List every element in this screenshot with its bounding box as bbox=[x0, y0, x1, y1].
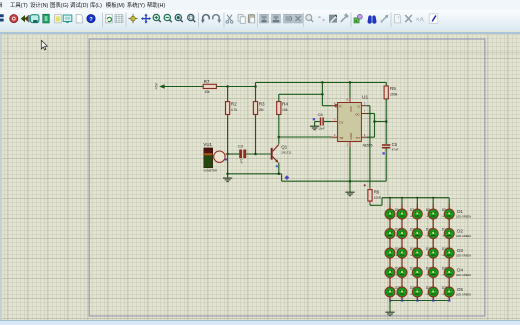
op-amp U1 NE555 bbox=[338, 94, 373, 147]
wire R4 to reset line bbox=[279, 94, 323, 101]
marker emitter bbox=[276, 165, 278, 167]
svg-text:10k: 10k bbox=[282, 108, 288, 112]
svg-text:D5: D5 bbox=[457, 287, 463, 292]
junction bottom rail bbox=[432, 300, 434, 302]
junction VCC drop bbox=[349, 81, 352, 84]
label led D14 bbox=[395, 247, 408, 257]
svg-text:辑: 辑 bbox=[0, 1, 3, 9]
wire col2 link3 bbox=[401, 258, 403, 268]
LED col2 row3 bbox=[397, 247, 407, 260]
wire output pin3 to R6 bbox=[366, 106, 370, 188]
wire ground rail bbox=[228, 174, 387, 181]
junction bottom rail bbox=[401, 300, 403, 302]
svg-text:4.7k: 4.7k bbox=[231, 108, 238, 112]
wire node to R3 bbox=[255, 87, 257, 102]
wire col4 to bottom rail bbox=[432, 297, 434, 301]
LED col4 row2 bbox=[428, 227, 438, 240]
capacitor C6 bbox=[318, 112, 325, 131]
junction collector-trigger bbox=[278, 136, 281, 139]
wire top rail bbox=[256, 82, 387, 86]
wire R6 to LED rail bbox=[370, 198, 449, 206]
svg-text:R7: R7 bbox=[204, 79, 210, 84]
junction rail bbox=[401, 197, 403, 199]
svg-text:C3: C3 bbox=[238, 144, 244, 149]
probe marker bbox=[416, 300, 418, 302]
label row D4 bbox=[456, 268, 471, 277]
wire col5 link4 bbox=[448, 277, 450, 287]
svg-text:D3: D3 bbox=[457, 248, 463, 253]
svg-text:?: ? bbox=[89, 17, 93, 23]
wire R2 to mic node bbox=[227, 115, 229, 155]
svg-text:库(L): 库(L) bbox=[90, 1, 102, 9]
toolbar icons bbox=[0, 13, 438, 28]
svg-text:LED-GREEN: LED-GREEN bbox=[456, 214, 471, 218]
ground C6 bbox=[310, 126, 319, 130]
label led D24 bbox=[426, 286, 439, 296]
LED col3 row3 bbox=[412, 247, 422, 260]
wire 555 GND pin to ground bbox=[349, 147, 351, 192]
LED col1 row3 bbox=[385, 247, 395, 260]
wire col3 link4 bbox=[416, 277, 418, 287]
label led D23 bbox=[410, 286, 423, 296]
LED col4 row3 bbox=[428, 247, 438, 260]
label led D19 bbox=[410, 267, 423, 277]
svg-text:R2: R2 bbox=[231, 101, 237, 106]
wire col4 link2 bbox=[432, 238, 434, 248]
svg-text:100R: 100R bbox=[374, 196, 382, 200]
LED col4 row1 bbox=[428, 208, 438, 221]
LED col5 row1 bbox=[444, 208, 454, 221]
svg-text:1: 1 bbox=[346, 143, 348, 147]
ground mic bbox=[223, 178, 232, 182]
svg-text:2: 2 bbox=[334, 133, 336, 137]
LED col1 row2 bbox=[385, 227, 395, 240]
svg-text:LED-GREEN: LED-GREEN bbox=[456, 273, 471, 277]
label led D6 bbox=[395, 208, 408, 218]
wire col3 link2 bbox=[416, 238, 418, 248]
wire R5 to C5 bbox=[385, 99, 387, 144]
wire bracket to R5C5 node bbox=[375, 121, 387, 123]
svg-text:LED-GREEN: LED-GREEN bbox=[456, 253, 471, 257]
LED col4 row5 bbox=[428, 286, 438, 299]
LED col3 row4 bbox=[412, 266, 422, 279]
junction R3 tap bbox=[254, 85, 257, 88]
LED col3 row5 bbox=[412, 286, 422, 299]
wire C6 to ground bbox=[314, 122, 316, 127]
svg-text:5: 5 bbox=[334, 117, 336, 121]
wire rail drop col2 bbox=[401, 198, 403, 205]
label led D7 bbox=[410, 208, 423, 218]
svg-text:TH: TH bbox=[356, 136, 360, 140]
svg-text:47uF: 47uF bbox=[392, 148, 399, 152]
junction 555 ground bbox=[349, 180, 352, 183]
wire rail corner to R5 bbox=[385, 82, 387, 86]
junction rail bbox=[389, 197, 391, 199]
wire col3 to bottom rail bbox=[416, 297, 418, 301]
svg-text:图表(G): 图表(G) bbox=[50, 1, 69, 9]
wire col2 link2 bbox=[401, 238, 403, 248]
svg-text:7: 7 bbox=[364, 109, 366, 113]
reset pin bubble U1 bbox=[335, 104, 338, 107]
pin numbers U1 bbox=[334, 98, 366, 147]
wire collector to trigger pin bbox=[279, 136, 332, 138]
power terminal +5V bbox=[154, 83, 164, 90]
svg-text:6: 6 bbox=[364, 133, 366, 137]
pin stubs U1 bbox=[332, 98, 367, 147]
label led D9 bbox=[442, 208, 455, 218]
wire col5 link1 bbox=[448, 219, 450, 229]
svg-text:模板(M): 模板(M) bbox=[106, 1, 125, 9]
svg-text:LED-GREEN: LED-GREEN bbox=[456, 292, 471, 296]
wire col2 link4 bbox=[401, 277, 403, 287]
svg-text:调试(D): 调试(D) bbox=[70, 1, 88, 9]
marker C6 bbox=[313, 118, 315, 120]
svg-text:C6: C6 bbox=[318, 112, 324, 117]
LED col2 row2 bbox=[397, 227, 407, 240]
wire Q1 emitter down bbox=[278, 163, 280, 174]
svg-text:工具(T): 工具(T) bbox=[10, 2, 28, 9]
svg-text:3: 3 bbox=[364, 102, 366, 106]
wire rail drop col1 bbox=[389, 198, 391, 205]
svg-text:VUMETER: VUMETER bbox=[203, 168, 217, 172]
wire R3 to base node bbox=[255, 115, 257, 155]
svg-text:系统(Y): 系统(Y) bbox=[127, 1, 145, 9]
resistor R7 bbox=[203, 79, 216, 94]
wire col2 link1 bbox=[401, 219, 403, 229]
wire node to R2 bbox=[227, 87, 229, 102]
label led D17 bbox=[442, 247, 455, 257]
svg-text:GND: GND bbox=[349, 132, 353, 140]
LED col5 row4 bbox=[444, 266, 454, 279]
wire C3 to Q1 base bbox=[246, 153, 271, 155]
junction rail bbox=[416, 197, 418, 199]
capacitor C5 bbox=[382, 142, 399, 151]
polarity marker C5 bbox=[382, 152, 384, 154]
label led D20 bbox=[426, 267, 439, 277]
wire col5 to bottom rail bbox=[448, 297, 450, 301]
junction mic node bbox=[226, 153, 229, 156]
svg-text:a: a bbox=[355, 19, 357, 23]
wire col4 link1 bbox=[432, 219, 434, 229]
svg-text:D2: D2 bbox=[457, 229, 463, 234]
wire col4 link4 bbox=[432, 277, 434, 287]
wire col1 link1 bbox=[389, 219, 391, 229]
wire col3 link1 bbox=[416, 219, 418, 229]
junction R5-C5 node bbox=[385, 120, 388, 123]
label row D2 bbox=[456, 229, 471, 238]
svg-text:R6: R6 bbox=[374, 189, 380, 194]
label led D12 bbox=[426, 228, 439, 238]
svg-text:Q1: Q1 bbox=[281, 145, 287, 150]
resistor R6 bbox=[368, 188, 382, 203]
LED col2 row4 bbox=[397, 266, 407, 279]
svg-text:2N1711: 2N1711 bbox=[281, 150, 292, 154]
junction R3-base bbox=[254, 153, 257, 156]
junction R2 tap bbox=[226, 85, 229, 88]
wire col5 link2 bbox=[448, 238, 450, 248]
svg-text:D4: D4 bbox=[457, 268, 463, 273]
junction rail bbox=[432, 197, 434, 199]
label led D8 bbox=[426, 208, 439, 218]
svg-text:200k: 200k bbox=[390, 92, 398, 96]
capacitor C3 bbox=[238, 144, 246, 164]
resistor R5 bbox=[384, 86, 398, 99]
LED col5 row3 bbox=[444, 247, 454, 260]
junction bracket tap bbox=[373, 120, 376, 123]
wire LED bottom rail bbox=[390, 300, 449, 302]
label led D10 bbox=[395, 228, 408, 238]
LED col2 row5 bbox=[397, 286, 407, 299]
svg-text:10nF: 10nF bbox=[318, 127, 325, 131]
LED col5 row5 bbox=[444, 286, 454, 299]
wire rail to reset pin bbox=[322, 82, 331, 105]
junction bottom rail bbox=[416, 300, 418, 302]
LED col2 row1 bbox=[397, 208, 407, 221]
resistor R3 bbox=[253, 101, 265, 114]
wire rail to VCC pin bbox=[349, 82, 351, 98]
mouse cursor bbox=[41, 40, 47, 50]
svg-text:2M: 2M bbox=[259, 108, 264, 112]
wire mic to C3 bbox=[228, 153, 240, 155]
resistor R4 bbox=[277, 101, 289, 114]
wire bottom rail to ground bbox=[389, 301, 391, 313]
label led D22 bbox=[395, 286, 408, 296]
label led D13 bbox=[442, 228, 455, 238]
ground U1 bbox=[345, 192, 354, 196]
svg-text:8: 8 bbox=[346, 98, 348, 102]
junction reset drop bbox=[321, 81, 324, 84]
svg-text:U1: U1 bbox=[362, 94, 368, 100]
label led D25 bbox=[442, 286, 455, 296]
LED col3 row2 bbox=[412, 227, 422, 240]
wire col3 link3 bbox=[416, 258, 418, 268]
LED col1 row4 bbox=[385, 266, 395, 279]
menu bar text bbox=[0, 1, 165, 9]
transistor Q1 bbox=[271, 144, 292, 162]
wire col1 link2 bbox=[389, 238, 391, 248]
label led D21 bbox=[442, 267, 455, 277]
wire C5 to ground rail bbox=[385, 149, 387, 182]
svg-text:VCC: VCC bbox=[349, 105, 353, 112]
wire col1 link4 bbox=[389, 277, 391, 287]
junction emitter bbox=[278, 173, 281, 176]
svg-text:D1: D1 bbox=[457, 209, 463, 214]
LED col3 row1 bbox=[412, 208, 422, 221]
junction reset line bbox=[321, 93, 324, 96]
junction ground rail start bbox=[226, 173, 229, 176]
wire col4 link3 bbox=[432, 258, 434, 268]
wire rail drop col4 bbox=[432, 198, 434, 205]
marker mic bbox=[225, 159, 227, 161]
label led D16 bbox=[426, 247, 439, 257]
probe marker bbox=[432, 300, 434, 302]
wire col1 to bottom rail bbox=[389, 297, 391, 301]
node marker diamond bbox=[284, 175, 289, 180]
LED col5 row2 bbox=[444, 227, 454, 240]
label led D11 bbox=[410, 228, 423, 238]
LED col1 row5 bbox=[385, 286, 395, 299]
svg-text:10k: 10k bbox=[204, 90, 210, 94]
wire C6 left bbox=[315, 121, 320, 123]
wire R7 to node bbox=[216, 86, 255, 88]
svg-text:DC: DC bbox=[355, 112, 360, 116]
svg-text:VU1: VU1 bbox=[203, 142, 212, 147]
probe marker bbox=[448, 300, 450, 302]
svg-text:1uF: 1uF bbox=[239, 159, 243, 164]
svg-text:设计(N): 设计(N) bbox=[30, 1, 48, 9]
wire col1 link3 bbox=[389, 258, 391, 268]
wire col2 to bottom rail bbox=[401, 297, 403, 301]
wire +5V to R7 bbox=[164, 86, 203, 88]
svg-text:R4: R4 bbox=[282, 101, 288, 106]
svg-text:R5: R5 bbox=[390, 86, 396, 91]
wire R4 to Q1 collector bbox=[278, 115, 280, 144]
LED col1 row1 bbox=[385, 208, 395, 221]
label led D18 bbox=[395, 267, 408, 277]
resistor R2 bbox=[226, 101, 238, 114]
label row D1 bbox=[456, 209, 471, 218]
probe marker bbox=[401, 300, 403, 302]
LED col4 row4 bbox=[428, 266, 438, 279]
svg-text:NE555: NE555 bbox=[363, 144, 373, 148]
wire mic node to ground bbox=[227, 154, 229, 178]
label led D15 bbox=[410, 247, 423, 257]
wire discharge-threshold link bbox=[366, 114, 374, 138]
label row D3 bbox=[456, 248, 471, 257]
svg-text:+5V: +5V bbox=[154, 83, 158, 90]
wire C6 to CV pin bbox=[324, 121, 332, 123]
label row D5 bbox=[456, 287, 471, 296]
svg-text:C5: C5 bbox=[392, 142, 398, 147]
wire col5 link3 bbox=[448, 258, 450, 268]
svg-text:帮助(H): 帮助(H) bbox=[147, 1, 165, 9]
svg-text:R3: R3 bbox=[259, 101, 265, 106]
svg-text:LED-GREEN: LED-GREEN bbox=[456, 234, 471, 238]
wire rail drop col3 bbox=[416, 198, 418, 205]
VU meter VU1 bbox=[203, 142, 228, 172]
ground LED matrix bbox=[385, 312, 394, 316]
probe marker bbox=[389, 300, 391, 302]
svg-text:×A: ×A bbox=[416, 16, 425, 23]
wire rail drop col5 bbox=[448, 198, 450, 205]
